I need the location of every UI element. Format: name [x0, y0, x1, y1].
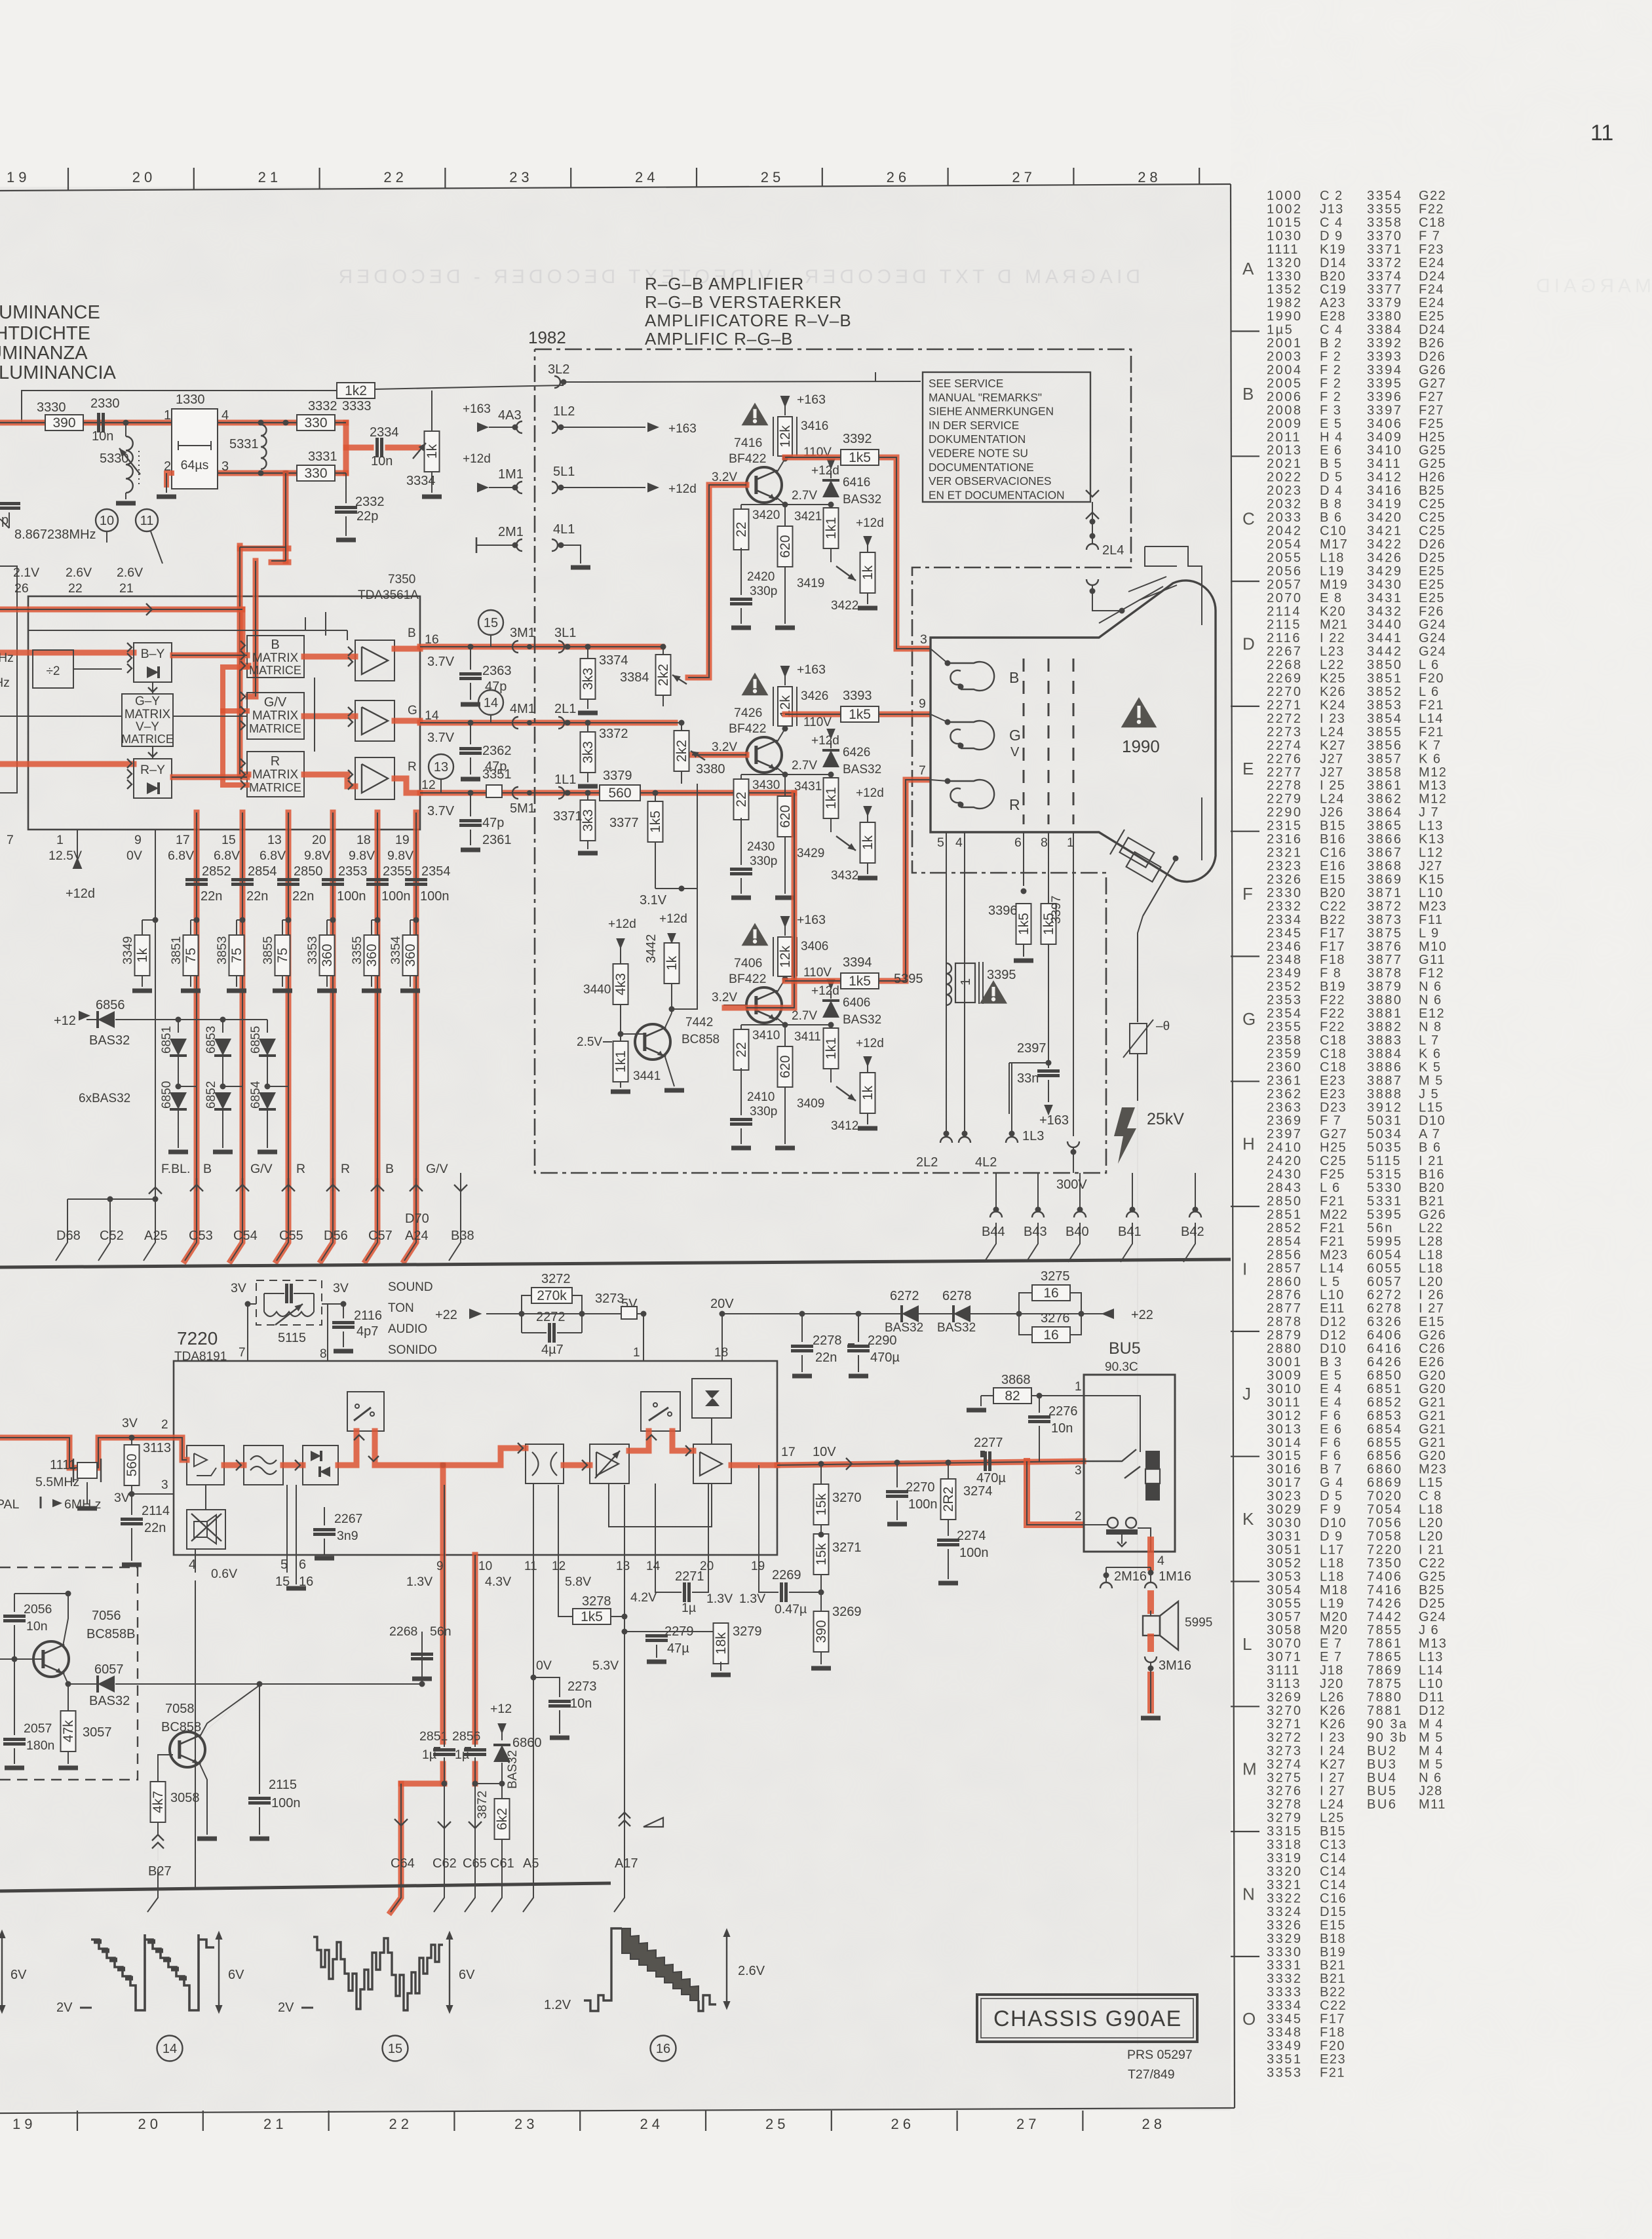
svg-text:2397: 2397	[1017, 1041, 1047, 1056]
svg-text:2362: 2362	[1267, 1087, 1303, 1101]
svg-text:7406: 7406	[1367, 1569, 1403, 1584]
svg-text:L12: L12	[1419, 846, 1444, 860]
svg-text:0V: 0V	[126, 849, 142, 863]
svg-text:+22: +22	[1131, 1308, 1153, 1322]
svg-text:3394: 3394	[843, 955, 872, 970]
svg-text:2363: 2363	[1267, 1100, 1303, 1115]
svg-text:+12: +12	[54, 1014, 76, 1028]
svg-text:F 7: F 7	[1419, 229, 1440, 243]
crt anode connector	[1110, 830, 1176, 916]
svg-text:6057: 6057	[94, 1662, 124, 1677]
svg-text:1330: 1330	[1267, 269, 1303, 284]
svg-text:+163: +163	[463, 402, 491, 416]
svg-text:2315: 2315	[1267, 819, 1303, 833]
svg-text:24: 24	[635, 169, 659, 185]
waveform 14 circle	[157, 2036, 183, 2061]
svg-text:M11: M11	[1419, 1797, 1446, 1812]
svg-text:PRS 05297: PRS 05297	[1127, 2048, 1193, 2062]
node luma1	[123, 420, 129, 426]
svg-text:2273: 2273	[1267, 725, 1303, 739]
resistor 3275 16	[1016, 1311, 1022, 1317]
svg-text:+163: +163	[797, 662, 826, 677]
wire column x635	[404, 813, 416, 1261]
svg-text:A24: A24	[405, 1229, 429, 1243]
block squelch	[187, 1510, 225, 1549]
svg-text:100n: 100n	[420, 889, 450, 904]
svg-text:7426: 7426	[1367, 1596, 1403, 1611]
svg-text:3351: 3351	[482, 767, 512, 782]
svg-text:3393: 3393	[843, 689, 872, 703]
capacitor 2856 1u	[464, 1748, 486, 1751]
svg-text:3113: 3113	[143, 1441, 171, 1455]
svg-text:1002: 1002	[1267, 202, 1303, 216]
svg-text:15: 15	[388, 2042, 402, 2056]
svg-text:N 6: N 6	[1419, 1770, 1442, 1785]
svg-text:M18: M18	[1320, 1583, 1348, 1598]
red path sound chain1	[224, 1463, 244, 1468]
svg-text:11: 11	[524, 1560, 537, 1573]
svg-text:2268: 2268	[1267, 658, 1303, 672]
svg-text:75: 75	[229, 947, 244, 963]
resistor 3853 75	[237, 919, 242, 921]
flash 25kV	[1114, 1107, 1136, 1164]
svg-text:3012: 3012	[1267, 1409, 1303, 1423]
svg-text:2011: 2011	[1267, 430, 1301, 444]
svg-text:3333: 3333	[1267, 1985, 1303, 2000]
svg-text:IN DER SERVICE: IN DER SERVICE	[929, 419, 1019, 432]
svg-text:3440: 3440	[583, 983, 611, 997]
connector 2L1	[558, 717, 564, 729]
svg-text:75: 75	[183, 947, 199, 963]
svg-text:p: p	[1, 513, 9, 527]
svg-text:6278: 6278	[942, 1289, 972, 1303]
svg-text:22: 22	[68, 581, 83, 596]
capacitor 2851 1u	[433, 1748, 455, 1751]
svg-text:3009: 3009	[1267, 1368, 1303, 1383]
amp triangle G	[355, 700, 394, 741]
svg-text:E15: E15	[1419, 1315, 1445, 1330]
svg-text:3410: 3410	[1367, 444, 1403, 458]
svg-text:6854: 6854	[249, 1081, 263, 1109]
svg-text:2.6V: 2.6V	[117, 565, 143, 580]
svg-text:6: 6	[1014, 835, 1022, 850]
svg-text:C18: C18	[1320, 1046, 1347, 1061]
svg-text:B27: B27	[148, 1864, 172, 1879]
svg-text:C 4: C 4	[1320, 323, 1343, 337]
svg-text:C64: C64	[391, 1856, 415, 1871]
svg-text:1330: 1330	[176, 392, 205, 407]
svg-text:L22: L22	[1320, 658, 1345, 672]
svg-text:F21: F21	[1320, 2065, 1345, 2080]
pot 3380 2k2	[679, 720, 685, 726]
svg-text:3276: 3276	[1267, 1784, 1303, 1799]
svg-text:E23: E23	[1320, 2052, 1346, 2067]
svg-text:M21: M21	[1320, 618, 1348, 632]
svg-text:M 4: M 4	[1419, 1717, 1444, 1731]
left edge wire stub	[0, 716, 28, 717]
svg-text:1320: 1320	[1267, 256, 1303, 270]
svg-text:J 7: J 7	[1419, 805, 1439, 820]
svg-text:15k: 15k	[814, 1543, 829, 1565]
capacitor 2353 100n	[322, 878, 344, 881]
connector 1L2	[552, 421, 558, 433]
svg-text:V–Y: V–Y	[136, 720, 159, 734]
svg-text:DOCUMENTATIONE: DOCUMENTATIONE	[929, 461, 1034, 474]
svg-text:5L1: 5L1	[553, 465, 575, 479]
capacitor 2116 4p7	[328, 1303, 343, 1305]
svg-text:D 9: D 9	[1320, 229, 1343, 243]
svg-text:16: 16	[1043, 1286, 1058, 1301]
svg-text:G/V: G/V	[264, 695, 287, 710]
svg-text:1.2V: 1.2V	[544, 1998, 571, 2012]
svg-text:15k: 15k	[814, 1493, 829, 1516]
svg-text:3882: 3882	[1367, 1020, 1403, 1035]
svg-text:C62: C62	[432, 1856, 457, 1871]
svg-text:3416: 3416	[801, 419, 828, 433]
svg-text:3392: 3392	[843, 432, 872, 446]
svg-text:7442: 7442	[1367, 1610, 1403, 1624]
svg-text:F22: F22	[1320, 993, 1345, 1008]
svg-text:B 7: B 7	[1320, 1463, 1343, 1477]
svg-text:MATRIX: MATRIX	[252, 709, 299, 723]
svg-text:5031: 5031	[1367, 1114, 1403, 1128]
svg-text:G25: G25	[1419, 444, 1446, 458]
svg-text:620: 620	[778, 535, 793, 558]
svg-text:3855: 3855	[261, 936, 275, 965]
red path luma row2	[218, 470, 346, 476]
svg-text:D12: D12	[1419, 1704, 1446, 1718]
svg-text:28: 28	[1138, 169, 1161, 185]
svg-text:B: B	[271, 638, 279, 652]
svg-text:2330: 2330	[90, 396, 120, 411]
red path matrix feeds	[173, 653, 247, 659]
svg-text:3853: 3853	[1367, 698, 1403, 712]
svg-text:4k3: 4k3	[613, 973, 628, 995]
svg-text:3394: 3394	[1367, 363, 1403, 377]
svg-text:2330: 2330	[1267, 886, 1303, 900]
svg-text:BAS32: BAS32	[843, 763, 881, 776]
resistor 3393 1k5	[841, 706, 879, 722]
svg-text:14: 14	[646, 1560, 661, 1573]
svg-text:22n: 22n	[292, 889, 314, 904]
svg-text:2.1V: 2.1V	[13, 565, 39, 580]
svg-text:3430: 3430	[752, 778, 780, 792]
svg-text:2009: 2009	[1267, 417, 1303, 431]
svg-text:D26: D26	[1419, 350, 1446, 364]
svg-text:F18: F18	[1320, 2025, 1345, 2040]
svg-text:3349: 3349	[121, 936, 135, 965]
svg-text:22: 22	[734, 792, 749, 807]
svg-text:L 6: L 6	[1320, 1181, 1341, 1195]
svg-text:14: 14	[163, 2042, 177, 2056]
svg-text:4: 4	[189, 1558, 196, 1572]
svg-text:N 6: N 6	[1419, 980, 1442, 994]
svg-text:1.3V: 1.3V	[706, 1592, 733, 1606]
svg-text:10V: 10V	[813, 1445, 836, 1459]
svg-text:2L1: 2L1	[554, 702, 576, 716]
svg-text:3273: 3273	[595, 1292, 624, 1306]
svg-text:7058: 7058	[165, 1702, 195, 1716]
svg-text:2362: 2362	[482, 744, 512, 758]
svg-text:4M1: 4M1	[510, 702, 535, 716]
transistor 7056 BC858B	[33, 1641, 69, 1677]
svg-text:26: 26	[891, 2116, 915, 2132]
svg-text:B20: B20	[1320, 886, 1346, 900]
block sound bandpass	[526, 1444, 564, 1483]
svg-text:3318: 3318	[1267, 1838, 1303, 1852]
svg-text:K19: K19	[1320, 242, 1346, 257]
resistor 3279 18k	[624, 1631, 721, 1632]
svg-text:2274: 2274	[1267, 738, 1303, 753]
red branch to pin2	[1027, 1461, 1081, 1525]
svg-text:E25: E25	[1419, 591, 1445, 605]
svg-text:D: D	[1242, 634, 1255, 653]
block sound switch1	[347, 1392, 384, 1431]
bus line main	[0, 1259, 1231, 1267]
capacitor 2056 10n	[14, 1594, 15, 1612]
svg-text:E 7: E 7	[1320, 1637, 1343, 1651]
svg-text:6416: 6416	[843, 476, 870, 489]
ic 7220 internal pin wires	[442, 1465, 444, 1485]
svg-text:E 6: E 6	[1320, 1422, 1343, 1436]
svg-text:3273: 3273	[1267, 1744, 1303, 1758]
svg-text:100n: 100n	[271, 1796, 301, 1810]
svg-text:14: 14	[484, 696, 498, 710]
svg-text:C14: C14	[1320, 1865, 1347, 1879]
svg-text:3351: 3351	[1267, 2052, 1303, 2067]
svg-text:C 4: C 4	[1320, 216, 1343, 230]
svg-text:H26: H26	[1419, 470, 1446, 485]
capacitor 2270 100n	[894, 1460, 900, 1466]
diode 6860 BAS32	[497, 1723, 507, 1734]
svg-text:330p: 330p	[750, 1105, 777, 1119]
svg-text:L 6: L 6	[1419, 658, 1440, 672]
svg-text:I 27: I 27	[1320, 1770, 1345, 1785]
svg-text:6426: 6426	[843, 746, 870, 759]
svg-text:3354: 3354	[1367, 189, 1403, 203]
svg-text:G26: G26	[1419, 1328, 1446, 1343]
svg-text:11: 11	[140, 514, 154, 528]
waveform left edge axis	[1, 1933, 3, 2010]
wire column x440	[277, 813, 288, 1261]
svg-text:B 2: B 2	[1320, 336, 1343, 351]
svg-text:3274: 3274	[963, 1484, 993, 1499]
wire thermistor down	[1137, 1054, 1138, 1101]
wire chroma in	[0, 609, 242, 610]
svg-text:2860: 2860	[1267, 1274, 1303, 1289]
red path sound in	[1, 1438, 187, 1468]
svg-text:L20: L20	[1419, 1274, 1444, 1289]
ic 7350 box	[28, 596, 420, 830]
svg-text:16: 16	[1043, 1328, 1058, 1343]
svg-text:2334: 2334	[370, 425, 399, 440]
wire pin11	[533, 1555, 534, 1890]
svg-text:E28: E28	[1320, 309, 1346, 324]
svg-text:L20: L20	[1419, 1529, 1444, 1544]
svg-text:3411: 3411	[1367, 457, 1402, 471]
svg-text:+12: +12	[490, 1702, 512, 1716]
svg-text:1990: 1990	[1122, 737, 1160, 756]
svg-text:L18: L18	[1320, 1569, 1345, 1584]
svg-text:3: 3	[221, 459, 229, 474]
svg-text:2354: 2354	[421, 864, 451, 879]
svg-text:2349: 2349	[1267, 966, 1303, 981]
svg-text:2332: 2332	[355, 495, 385, 509]
transistor stage 7426	[780, 666, 790, 678]
wire c62 column	[444, 1485, 445, 1747]
svg-text:F22: F22	[1419, 202, 1444, 216]
svg-text:3420: 3420	[752, 508, 780, 522]
svg-text:2850: 2850	[1267, 1195, 1303, 1209]
svg-text:2358: 2358	[1267, 1033, 1303, 1048]
svg-text:7: 7	[7, 833, 14, 847]
svg-text:300V: 300V	[1056, 1177, 1087, 1192]
svg-text:3856: 3856	[1367, 738, 1403, 753]
svg-text:M19: M19	[1320, 577, 1348, 592]
svg-text:56n: 56n	[430, 1624, 451, 1639]
svg-text:C53: C53	[189, 1229, 213, 1243]
wire 3M16	[1145, 1656, 1157, 1662]
capacitor 2276 10n	[1039, 1396, 1040, 1413]
svg-text:A23: A23	[1320, 296, 1346, 311]
svg-text:3412: 3412	[1367, 470, 1403, 485]
svg-text:2114: 2114	[1267, 604, 1301, 619]
arrow +22 left	[469, 1309, 482, 1319]
svg-text:J18: J18	[1320, 1664, 1344, 1678]
svg-text:2278: 2278	[813, 1333, 842, 1348]
svg-text:2V: 2V	[278, 2000, 294, 2015]
svg-text:K25: K25	[1320, 672, 1346, 686]
red column x300	[185, 813, 197, 1261]
svg-text:B: B	[1009, 669, 1019, 686]
svg-text:3853: 3853	[215, 936, 229, 965]
svg-text:1k5: 1k5	[849, 450, 871, 465]
svg-text:C25: C25	[1419, 497, 1446, 512]
svg-text:3M16: 3M16	[1159, 1658, 1191, 1673]
svg-text:TDA3561A: TDA3561A	[358, 588, 419, 602]
svg-text:L: L	[1242, 1634, 1252, 1654]
svg-text:G: G	[408, 704, 417, 718]
svg-text:2R2: 2R2	[941, 1487, 956, 1512]
svg-text:6V: 6V	[10, 1968, 27, 1982]
svg-text:3420: 3420	[1367, 510, 1403, 525]
svg-text:3355: 3355	[1367, 202, 1403, 216]
svg-text:22n: 22n	[815, 1350, 837, 1365]
svg-text:19: 19	[12, 2116, 36, 2132]
svg-text:3442: 3442	[1367, 645, 1403, 659]
svg-text:3354: 3354	[389, 936, 403, 965]
connector 3L2	[554, 376, 560, 388]
svg-text:3876: 3876	[1367, 940, 1403, 954]
svg-text:G24: G24	[1419, 631, 1446, 645]
svg-text:2420: 2420	[1267, 1154, 1303, 1168]
svg-text:TON: TON	[388, 1301, 414, 1315]
svg-text:F21: F21	[1320, 1195, 1345, 1209]
svg-text:3370: 3370	[1367, 229, 1403, 243]
svg-text:C19: C19	[1320, 282, 1347, 297]
svg-text:C10: C10	[1320, 524, 1347, 539]
resistor 3349 1k	[142, 919, 155, 921]
svg-text:3384: 3384	[620, 670, 649, 685]
svg-text:4L1: 4L1	[553, 522, 575, 537]
svg-text:3272: 3272	[541, 1272, 571, 1286]
svg-text:1µ: 1µ	[422, 1748, 436, 1762]
svg-text:BC858B: BC858B	[86, 1627, 136, 1641]
svg-text:7020: 7020	[1367, 1489, 1403, 1504]
svg-text:5331: 5331	[1367, 1195, 1403, 1209]
svg-text:3334: 3334	[406, 474, 436, 488]
svg-text:N: N	[1242, 1884, 1255, 1904]
svg-text:VEDERE NOTE SU: VEDERE NOTE SU	[929, 447, 1028, 460]
svg-text:6416: 6416	[1367, 1342, 1403, 1356]
svg-text:47p: 47p	[485, 679, 507, 694]
svg-text:3278: 3278	[1267, 1797, 1303, 1812]
svg-text:F 2: F 2	[1320, 363, 1341, 377]
wire collector q2	[785, 714, 841, 715]
svg-text:25: 25	[761, 169, 784, 185]
svg-text:R–G–B AMPLIFIER: R–G–B AMPLIFIER	[645, 274, 804, 294]
svg-text:3880: 3880	[1367, 993, 1403, 1008]
svg-text:6054: 6054	[1367, 1248, 1403, 1262]
testpoint circle 14	[478, 690, 503, 715]
svg-text:2332: 2332	[1267, 899, 1303, 913]
svg-text:M 4: M 4	[1419, 1744, 1444, 1758]
resistor 3271 15k	[814, 1534, 829, 1575]
svg-text:6406: 6406	[843, 996, 870, 1010]
svg-text:K 6: K 6	[1419, 1046, 1442, 1061]
resistor 3851 75	[191, 919, 197, 921]
svg-text:C26: C26	[1419, 1342, 1446, 1356]
svg-text:I 23: I 23	[1320, 712, 1345, 726]
svg-text:2278: 2278	[1267, 778, 1303, 793]
svg-text:BAS32: BAS32	[843, 493, 881, 507]
svg-text:7056: 7056	[92, 1609, 121, 1623]
svg-text:E 6: E 6	[1320, 444, 1343, 458]
svg-text:1.3V: 1.3V	[406, 1575, 432, 1589]
svg-text:47p: 47p	[482, 816, 504, 830]
svg-text:2410: 2410	[747, 1090, 775, 1104]
delay line 1330	[172, 409, 218, 489]
svg-text:B–Y: B–Y	[141, 647, 165, 661]
wire base q1	[688, 485, 746, 678]
svg-text:3353: 3353	[305, 936, 320, 965]
svg-text:2410: 2410	[1267, 1141, 1303, 1155]
svg-text:B38: B38	[451, 1229, 474, 1243]
svg-text:BAS32: BAS32	[885, 1321, 923, 1335]
svg-text:D24: D24	[1419, 269, 1446, 284]
svg-text:3872: 3872	[475, 1791, 490, 1819]
connector 1L3	[1009, 1131, 1015, 1137]
svg-text:3V: 3V	[114, 1491, 130, 1505]
capacitor 2362 47p	[468, 720, 474, 726]
wire 7058 emitter	[199, 1763, 207, 1835]
svg-text:M 5: M 5	[1419, 1757, 1444, 1772]
filter 5115 cap	[285, 1284, 288, 1303]
svg-text:2878: 2878	[1267, 1315, 1303, 1330]
svg-text:2.5V: 2.5V	[577, 1035, 602, 1049]
svg-text:100n: 100n	[908, 1497, 938, 1512]
svg-text:12k: 12k	[778, 946, 793, 968]
red path vertical V2	[248, 561, 256, 697]
svg-text:G25: G25	[1419, 457, 1446, 471]
svg-text:6850: 6850	[160, 1081, 174, 1109]
svg-text:D 5: D 5	[1320, 470, 1343, 485]
wire base q2	[692, 754, 746, 756]
svg-text:K13: K13	[1419, 832, 1445, 847]
dashed box bottom left	[0, 1567, 138, 1780]
coil 5395	[946, 963, 951, 1005]
svg-text:28: 28	[1142, 2116, 1166, 2132]
